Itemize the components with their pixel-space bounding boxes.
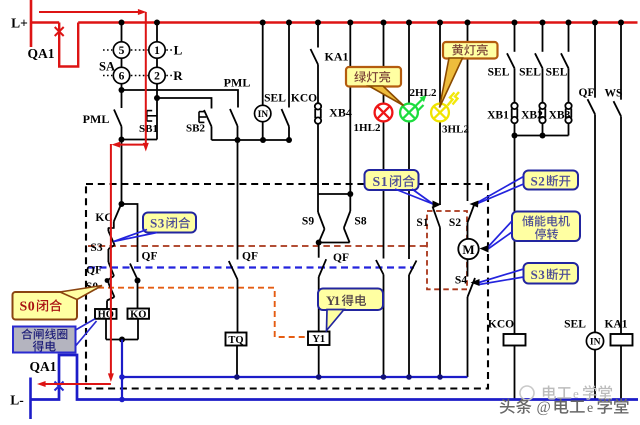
node split	[347, 191, 353, 197]
current path arrow left	[116, 144, 146, 146]
lamp 3HL2 (yellow, lit)	[431, 104, 449, 122]
wire merge to L- bus (blue)	[121, 340, 123, 400]
wire QF to KO	[137, 281, 139, 309]
wire WS column	[620, 23, 622, 100]
node TQ return	[234, 374, 240, 380]
svg-text:TQ: TQ	[228, 335, 243, 346]
svg-text:S: S	[373, 175, 381, 190]
wire SA column 5-6 stub	[121, 23, 123, 42]
wire SEL aux column 3	[568, 23, 570, 52]
current path arrow right	[39, 11, 141, 13]
node Y1 return	[316, 374, 322, 380]
node XB2 bottom	[540, 133, 546, 139]
coil KO	[128, 309, 150, 319]
svg-text:QF: QF	[333, 252, 349, 264]
svg-text:1: 1	[334, 293, 341, 308]
callout green lamp on	[346, 67, 401, 87]
callout Y1 energized	[318, 289, 383, 311]
contact QF aux	[588, 99, 596, 114]
current path down through S3/S0	[110, 144, 112, 377]
L+ bus left segment	[31, 21, 59, 24]
wire KA1 column	[317, 23, 319, 48]
node below SA-2	[154, 95, 160, 101]
current path arrow to QA1	[42, 383, 111, 385]
svg-text:QF: QF	[86, 265, 102, 277]
svg-text:S: S	[20, 300, 28, 315]
callout S3 closed	[143, 213, 196, 233]
dashed analysis box (control section boundary)	[86, 184, 488, 389]
svg-text:S: S	[531, 267, 538, 282]
svg-text:R: R	[173, 68, 183, 83]
svg-text:SA: SA	[99, 60, 115, 74]
svg-text:0: 0	[28, 300, 35, 315]
SA contact 5	[113, 42, 129, 58]
node 1HL2 return	[381, 374, 387, 380]
svg-text:2: 2	[154, 71, 160, 83]
node 3HL2 return	[437, 374, 443, 380]
svg-text:KA1: KA1	[605, 319, 628, 331]
svg-text:5: 5	[119, 45, 125, 57]
svg-text:IN: IN	[258, 110, 269, 120]
wire 2HL2 column	[408, 23, 410, 104]
wire QF to TQ coil	[237, 280, 239, 333]
orange dashed signal path to Y1	[88, 288, 307, 337]
svg-text:S8: S8	[354, 215, 366, 227]
svg-text:KO: KO	[130, 309, 146, 320]
contact QF under 2HL2	[409, 261, 417, 276]
svg-text:SEL: SEL	[564, 319, 586, 331]
svg-text:6: 6	[119, 71, 125, 83]
wire KO to merge	[137, 319, 139, 340]
svg-text:IN: IN	[590, 338, 601, 348]
svg-text:3: 3	[538, 267, 545, 282]
glow arrow green	[414, 95, 427, 111]
svg-text:KCO: KCO	[291, 93, 317, 105]
contact KC	[114, 205, 121, 222]
wire QF aux column	[594, 23, 596, 98]
wire rejoin bar	[319, 242, 350, 244]
callout S0 closed	[13, 292, 78, 320]
wire 1HL2 column	[383, 23, 385, 104]
dark-red dashed signal line	[88, 245, 427, 247]
node PML2 bottom	[235, 137, 241, 143]
svg-text:L: L	[174, 43, 183, 58]
svg-text:SEL: SEL	[264, 93, 286, 105]
SA contact 2	[149, 67, 165, 83]
wire XB merge	[515, 135, 569, 137]
svg-text:QF: QF	[579, 87, 595, 99]
node S0 top	[105, 278, 110, 283]
pushbutton SB2	[204, 110, 212, 127]
svg-text:M: M	[462, 242, 474, 257]
dark-red dashed box (energy-storage motor section)	[427, 211, 467, 289]
plug XB2	[539, 103, 545, 109]
wire to PML2	[122, 90, 239, 108]
plug XB4	[315, 103, 321, 109]
breaker QA1 notch (red)	[59, 23, 78, 67]
svg-text:XB2: XB2	[521, 110, 543, 122]
svg-text:SEL: SEL	[519, 67, 541, 79]
svg-text:XB4: XB4	[329, 106, 352, 120]
coil KA1	[611, 334, 633, 346]
callout S1 closed	[365, 170, 419, 190]
glow flashes yellow	[448, 92, 460, 106]
lamp 1HL2 (red)	[375, 104, 393, 122]
svg-text:1: 1	[381, 175, 388, 190]
svg-text:2HL2: 2HL2	[410, 87, 437, 99]
wire KCO coil to L-	[514, 346, 516, 399]
contact SEL 1	[507, 53, 515, 68]
wire SEL aux column 1	[514, 23, 516, 52]
contact S2 (open)	[468, 203, 476, 223]
contact WS	[614, 101, 622, 116]
svg-text:1: 1	[154, 45, 160, 57]
wire SA column 1-2 stub	[156, 23, 158, 42]
wire SEL supervision column	[262, 23, 264, 106]
coil Y1	[308, 332, 330, 346]
indicator SEL (IN)	[255, 105, 271, 121]
wire S2-M-S4 column	[467, 23, 469, 202]
svg-text:2: 2	[538, 174, 545, 189]
wire PML-SB1 bottoms	[122, 139, 158, 141]
svg-text:PML: PML	[224, 76, 251, 90]
svg-text:S2: S2	[449, 217, 461, 229]
svg-text:S9: S9	[302, 215, 314, 227]
current path down to SB1	[145, 12, 147, 146]
wire SB1 net down into box	[121, 140, 123, 205]
coil TQ (tripping coil)	[226, 333, 247, 346]
svg-text:Y1: Y1	[312, 334, 325, 345]
wire split top	[318, 193, 350, 195]
node KO-branch	[135, 278, 141, 284]
node PML left bottom	[119, 137, 125, 143]
node SEL bottom	[260, 137, 266, 143]
svg-text:S: S	[531, 174, 538, 189]
svg-text:QA1: QA1	[30, 359, 57, 374]
contact QF holdoff	[108, 262, 114, 276]
pushbutton SB1 (shown closed)	[156, 98, 158, 140]
svg-text:@: @	[537, 399, 551, 416]
svg-text:QF: QF	[142, 251, 158, 263]
coil KCO	[504, 334, 526, 346]
wire KO branch	[122, 204, 138, 262]
svg-text:3: 3	[158, 216, 165, 231]
wire HQ-KO merge bar	[106, 339, 138, 341]
indicator SEL (IN) bottom	[586, 332, 603, 349]
main L- bus with QA1 notch	[31, 355, 639, 400]
callout S3 open	[524, 263, 579, 284]
wire QF to Y1	[318, 277, 320, 332]
svg-text:PML: PML	[83, 112, 110, 126]
contact S9	[317, 194, 319, 212]
wire KA1 coil to L-	[620, 346, 622, 399]
wire KCO column	[288, 23, 290, 108]
node XB1 bottom	[512, 133, 518, 139]
node KCO bottom	[286, 137, 292, 143]
svg-text:KCO: KCO	[488, 319, 514, 331]
SA linkage dotted lines	[103, 49, 112, 51]
callout closing-coil energized	[13, 327, 76, 353]
callout motor stopped	[512, 212, 580, 242]
contact QF KO-branch	[130, 264, 138, 280]
wire down to KCO coil	[514, 136, 516, 335]
contact PML right	[230, 109, 238, 126]
svg-text:S: S	[150, 216, 157, 231]
contact QF TQ-branch	[229, 261, 238, 280]
contact S3 (closed path)	[107, 228, 109, 231]
node control return	[119, 374, 125, 380]
node below SA-6	[119, 87, 125, 93]
svg-text:XB3: XB3	[549, 110, 571, 122]
wire SEL(IN) to L-	[594, 350, 596, 399]
svg-text:SB1: SB1	[139, 123, 158, 135]
motor M (energy storage)	[458, 239, 478, 259]
svg-text:SEL: SEL	[546, 67, 568, 79]
svg-text:QF: QF	[242, 251, 258, 263]
contact QF under 1HL2	[376, 260, 384, 275]
contact S4 (open)	[468, 278, 476, 297]
terminal L+ feeder	[30, 0, 33, 47]
svg-text:WS: WS	[605, 88, 623, 100]
svg-text:S3: S3	[90, 242, 102, 254]
svg-text:e: e	[587, 401, 593, 416]
svg-text:S4: S4	[455, 275, 467, 287]
svg-text:KA1: KA1	[325, 50, 349, 64]
breaker QA1 open mark (blue X)	[55, 382, 64, 391]
wire SB2-PML2-SEL-KCO bottoms	[212, 139, 290, 141]
wire SEL aux column 2	[542, 23, 544, 52]
contact QF Y1-branch	[319, 259, 327, 277]
node L- corner	[119, 397, 125, 403]
wire HQ to merge	[105, 319, 107, 340]
contact SEL 3	[561, 53, 569, 68]
lamp 2HL2 (green, lit)	[400, 104, 418, 122]
svg-text:SEL: SEL	[488, 67, 510, 79]
contact PML left	[121, 90, 123, 108]
wire to SB2	[157, 98, 212, 109]
svg-text:L+: L+	[11, 16, 28, 31]
contact S8	[349, 194, 351, 211]
svg-text:XB1: XB1	[487, 110, 509, 122]
coil HQ (closing coil)	[95, 309, 117, 319]
contact SEL 2	[535, 53, 543, 68]
link bar S3	[108, 227, 115, 229]
contact S1	[433, 207, 441, 228]
watermark	[520, 386, 534, 400]
node merge	[119, 337, 125, 343]
main L+ bus	[78, 21, 637, 24]
wire TQ to bus	[236, 346, 238, 377]
wire rejoin to QF	[318, 243, 320, 258]
thin L- return bus	[121, 376, 468, 378]
svg-text:SB2: SB2	[186, 122, 205, 134]
svg-text:3HL2: 3HL2	[442, 123, 469, 135]
contact KA1	[311, 49, 319, 65]
blue dashed signal line	[88, 266, 414, 268]
SA contact 1	[149, 42, 165, 58]
terminal L-	[29, 378, 32, 420]
SA contact 6	[113, 67, 129, 83]
wire Y1 to bus	[318, 345, 320, 377]
breaker QA1 open mark (red X)	[55, 27, 64, 36]
L+ bus junction nodes	[119, 20, 125, 26]
contact KCO	[282, 109, 290, 127]
wire feed from bus	[349, 23, 351, 195]
node 2HL2 return	[406, 374, 412, 380]
node rejoin	[316, 240, 322, 246]
svg-text:e: e	[573, 386, 579, 401]
node KC top	[119, 201, 125, 207]
svg-text:L-: L-	[10, 393, 24, 408]
plug XB1	[511, 103, 517, 109]
wire 3HL2/S1 column	[439, 23, 441, 104]
svg-text:1HL2: 1HL2	[354, 122, 381, 134]
wire TQ column upper	[237, 140, 239, 260]
svg-text:S1: S1	[416, 217, 428, 229]
callout S2 open	[524, 171, 579, 190]
contact S0	[108, 283, 114, 297]
callout yellow lamp on	[443, 42, 498, 59]
svg-text:QA1: QA1	[28, 46, 55, 61]
plug XB3	[565, 103, 571, 109]
